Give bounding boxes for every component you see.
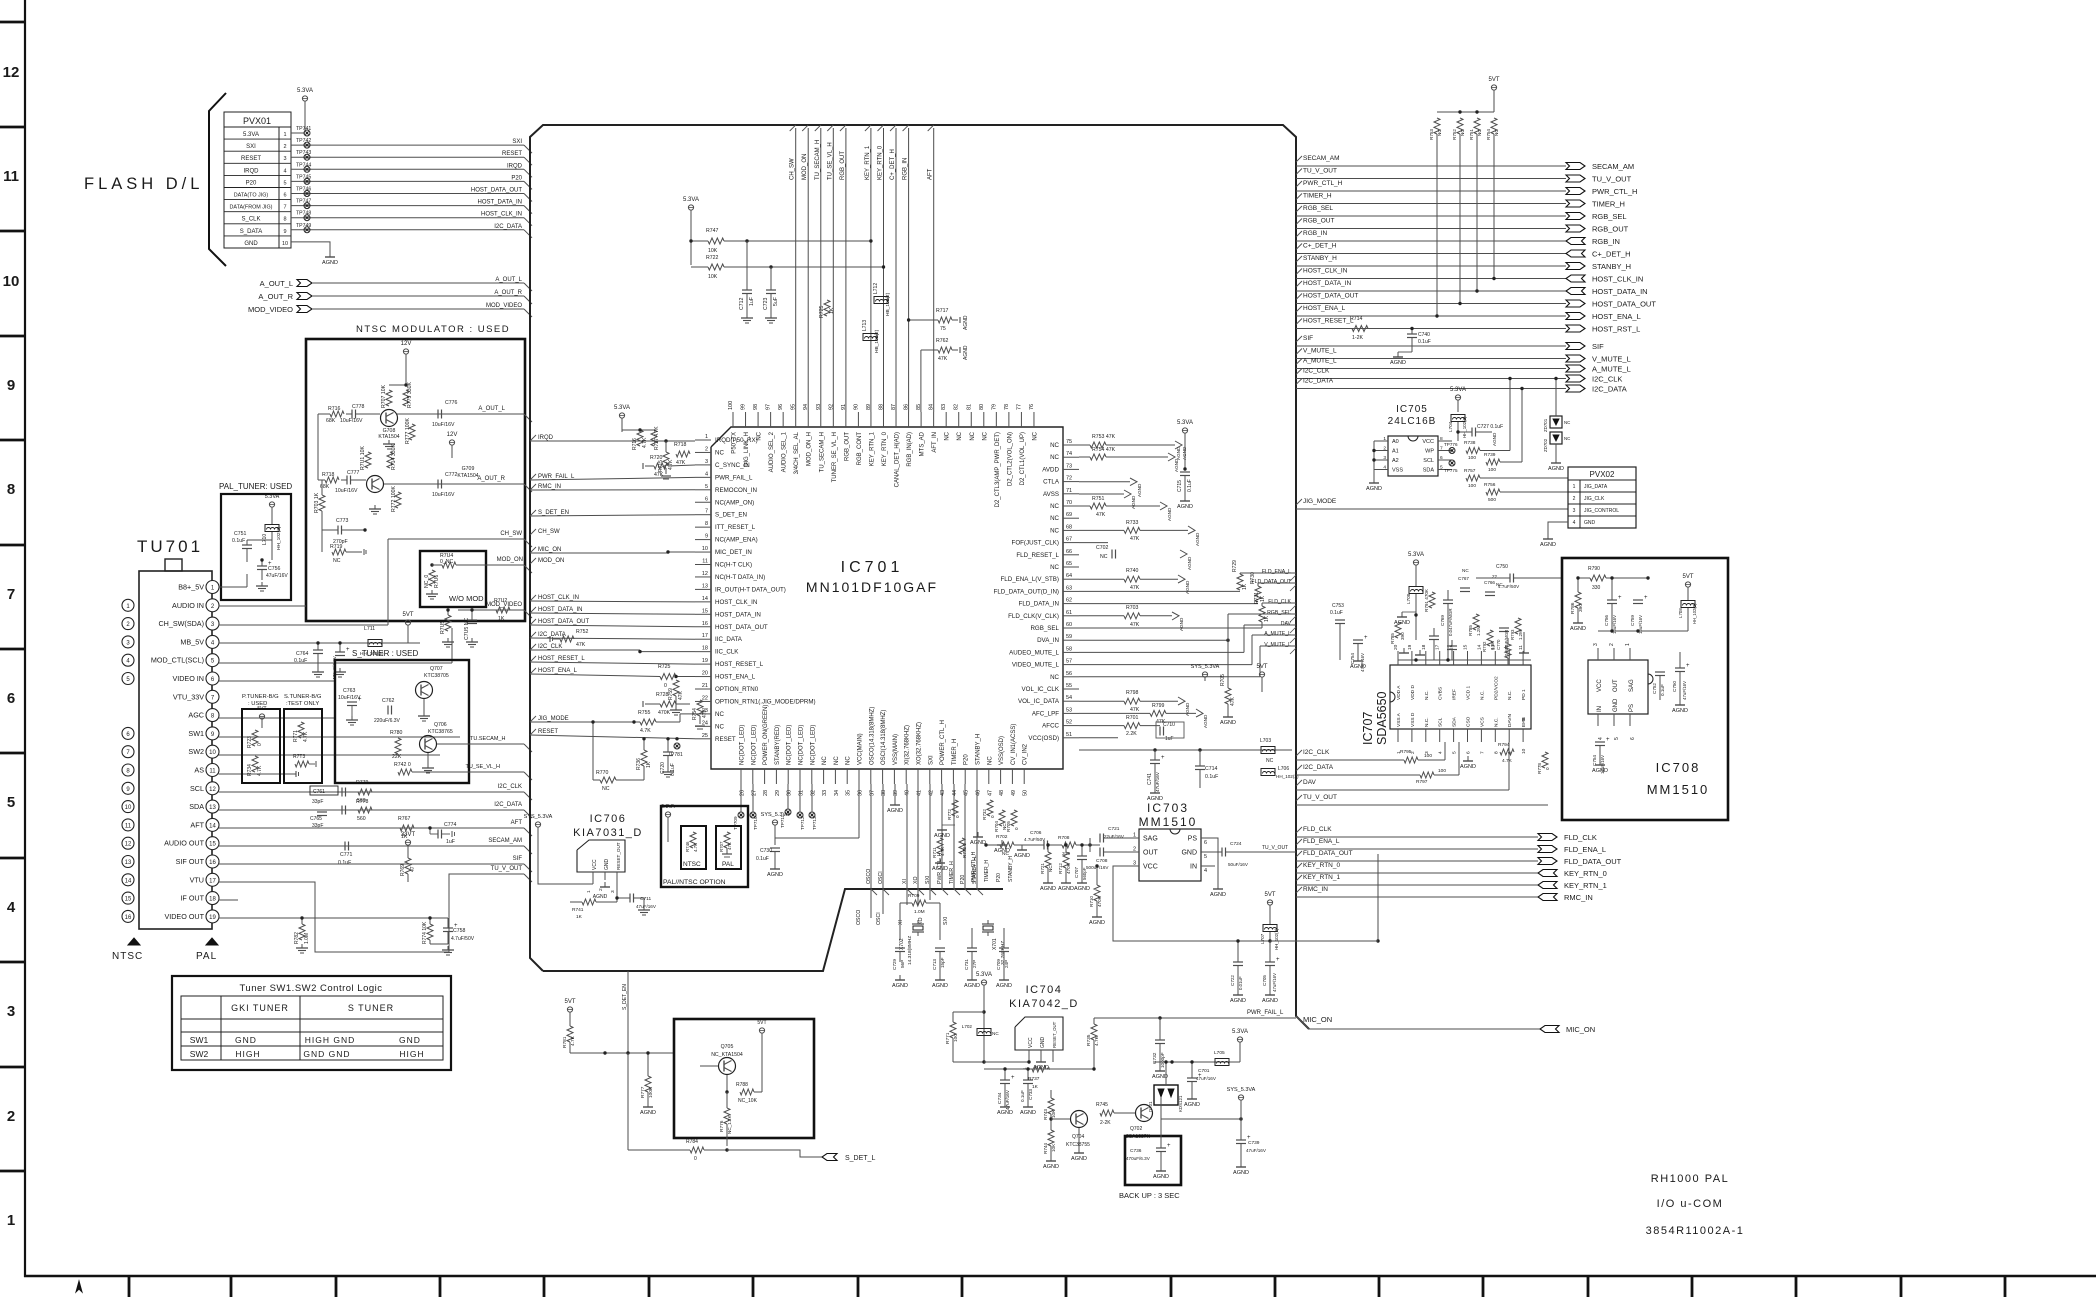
svg-text:41: 41: [917, 790, 923, 796]
capacitor C706 4.7uF/50V: [1043, 841, 1045, 850]
svg-text:0: 0: [1545, 767, 1550, 770]
svg-text:22K: 22K: [392, 754, 402, 760]
wire R771 loop: [953, 1011, 984, 1013]
ground for PVX02 pin4: [1548, 522, 1568, 534]
capacitor C729 56pF: [895, 947, 905, 949]
svg-text:5uF: 5uF: [773, 297, 779, 306]
svg-text:TU_V_OUT: TU_V_OUT: [1262, 845, 1288, 851]
ground IC704 pin2: [1040, 1057, 1042, 1062]
svg-text:I/O u-COM: I/O u-COM: [1657, 1198, 1724, 1210]
svg-text:100K: 100K: [648, 1086, 654, 1098]
svg-text:55: 55: [1066, 683, 1072, 689]
svg-text:24LC16B: 24LC16B: [1388, 416, 1437, 427]
svg-text:56: 56: [1066, 671, 1072, 677]
svg-text:6: 6: [705, 496, 708, 502]
svg-text:NC(DOT_LED): NC(DOT_LED): [751, 725, 757, 765]
svg-text:CH_SW(SDA): CH_SW(SDA): [158, 619, 204, 628]
svg-text:CH_SW: CH_SW: [538, 529, 560, 535]
R754 termination: [1168, 453, 1175, 461]
svg-text:VCC: VCC: [1597, 679, 1603, 692]
svg-text:NC: NC: [970, 431, 976, 440]
svg-text:C761: C761: [313, 789, 325, 795]
svg-text:A_OUT_R: A_OUT_R: [477, 476, 505, 482]
svg-text:AGND: AGND: [1220, 720, 1236, 726]
svg-text:FLD_DATA_IN: FLD_DATA_IN: [1019, 601, 1059, 608]
svg-text:L707: L707: [1260, 933, 1265, 944]
ground in modulator: [388, 440, 390, 444]
svg-text:560: 560: [357, 816, 366, 822]
svg-text:1uF: 1uF: [1165, 736, 1174, 742]
IC703 body: [1139, 829, 1201, 881]
svg-text:MOD_CTL(SCL): MOD_CTL(SCL): [151, 656, 204, 665]
PAL marker below tuner: [206, 938, 218, 945]
svg-text:N.C.: N.C.: [1507, 690, 1513, 700]
svg-text:FLD_DATA_OUT: FLD_DATA_OUT: [1251, 579, 1291, 585]
IC703 left pin 2 OUT: [1125, 851, 1139, 853]
svg-text:47K: 47K: [1130, 585, 1140, 591]
svg-text:AGND: AGND: [1592, 768, 1608, 774]
svg-text:47uF/16V: 47uF/16V: [1155, 771, 1160, 792]
svg-text:47K: 47K: [1230, 696, 1236, 706]
svg-text:NC: NC: [1050, 454, 1059, 461]
wire JIG_MODE right: [1296, 508, 1568, 510]
svg-text:OPTION_RTN0: OPTION_RTN0: [715, 686, 759, 693]
crystal X702 14.318MHZ: [912, 923, 924, 925]
svg-text:A_MUTE_L: A_MUTE_L: [1264, 631, 1291, 637]
svg-text:7: 7: [7, 586, 15, 603]
svg-text:5.3VA: 5.3VA: [1450, 387, 1466, 393]
svg-text:4.7K: 4.7K: [570, 1035, 576, 1046]
svg-text:5: 5: [1452, 751, 1458, 754]
svg-text:XI: XI: [902, 879, 908, 884]
svg-text:NC(H-T CLK): NC(H-T CLK): [715, 562, 752, 569]
wire IC707 top rail 2: [1398, 659, 1531, 661]
svg-text:NC(DOT_LED): NC(DOT_LED): [810, 725, 816, 765]
svg-text:VDD A: VDD A: [1396, 685, 1402, 700]
svg-text:A_OUT_R: A_OUT_R: [494, 290, 522, 296]
svg-text:HOST_DATA_IN: HOST_DATA_IN: [538, 607, 582, 613]
ground under Q709: [374, 505, 376, 509]
svg-text:HOST_CLK_IN: HOST_CLK_IN: [715, 599, 757, 606]
svg-text:HOST_CLK_IN: HOST_CLK_IN: [1303, 268, 1348, 275]
svg-text:0_NC: 0_NC: [440, 559, 454, 565]
svg-text:C750: C750: [1672, 681, 1677, 692]
IC707 top pin 17: [1439, 651, 1441, 665]
svg-text:PAL_TUNER: USED: PAL_TUNER: USED: [219, 482, 292, 491]
testpoint TP775: [1449, 460, 1455, 466]
svg-text:20: 20: [1393, 644, 1399, 650]
svg-text:HOST_CLK_IN: HOST_CLK_IN: [481, 212, 522, 218]
svg-text:HOST_DATA_OUT: HOST_DATA_OUT: [1592, 300, 1656, 309]
svg-text:P50_TX: P50_TX: [732, 432, 738, 454]
resistor R772z 0: [952, 800, 958, 816]
capacitor C709 24pF: [999, 947, 1009, 949]
svg-text:82: 82: [954, 404, 960, 410]
svg-text:2: 2: [598, 888, 604, 891]
svg-text:AGND: AGND: [964, 983, 980, 989]
svg-text:C730: C730: [760, 848, 772, 854]
svg-text:A0: A0: [1392, 439, 1399, 445]
svg-text:HH_102(2): HH_102(2): [1276, 774, 1299, 779]
svg-text:R721: R721: [1040, 863, 1045, 874]
svg-text:18: 18: [702, 646, 708, 652]
IC701 MN101DF10GAF body: [711, 427, 1063, 769]
svg-text:VOL_IC_CLK: VOL_IC_CLK: [1022, 686, 1060, 693]
wire pullup rail 2: [691, 266, 708, 268]
svg-text:470uF/6.3V: 470uF/6.3V: [1126, 1156, 1151, 1161]
svg-text:2: 2: [1133, 847, 1136, 853]
svg-text:MOD_VIDEO: MOD_VIDEO: [248, 305, 293, 314]
svg-text:47K: 47K: [1096, 512, 1106, 518]
svg-text:JIG_MODE: JIG_MODE: [1303, 498, 1337, 505]
right signal HOST_DATA_IN: [1296, 281, 1302, 287]
svg-text:TP713: TP713: [812, 816, 817, 830]
svg-text:11: 11: [702, 559, 708, 565]
svg-text:A_OUT_L: A_OUT_L: [260, 279, 293, 288]
ground IC706 pin2: [604, 882, 606, 887]
svg-text:VTU: VTU: [190, 875, 204, 884]
right signal A_MUTE_L: [1296, 359, 1302, 365]
svg-text:AGND: AGND: [887, 808, 903, 814]
resistor R703 1K: [319, 495, 325, 511]
connector PVX01 table: [224, 112, 291, 248]
svg-text:KIA7031_D: KIA7031_D: [573, 827, 643, 839]
svg-text:R707: R707: [719, 841, 724, 852]
svg-text:PAL//NTSC OPTION: PAL//NTSC OPTION: [663, 879, 726, 886]
svg-text:5.3VA: 5.3VA: [265, 494, 280, 500]
IC701 left pins 1-25: [695, 439, 711, 441]
svg-text:C723: C723: [763, 297, 769, 310]
svg-text:VCD 1: VCD 1: [1466, 686, 1472, 700]
svg-text:RESET: RESET: [241, 156, 261, 162]
capacitor C723 5uF: [766, 289, 776, 291]
svg-text:PD 1: PD 1: [1521, 689, 1527, 700]
crystal X701 32.768KHZ: [982, 923, 994, 925]
IC707 bottom pin 7: [1480, 729, 1482, 742]
svg-text:C707: C707: [1074, 867, 1079, 878]
resistor R735 4.7K: [1091, 1024, 1097, 1040]
wire FLD_DATA_OUT pin63: [1079, 603, 1258, 605]
svg-text:C764: C764: [296, 651, 309, 657]
svg-text:68: 68: [1066, 524, 1072, 530]
wire RESET from PVX01 pin 3: [304, 154, 310, 160]
svg-text:SIF OUT: SIF OUT: [176, 857, 205, 866]
svg-text:R791 470K: R791 470K: [1424, 588, 1429, 612]
resistor R752 47K: [560, 636, 574, 642]
svg-text:0.1uF: 0.1uF: [756, 856, 769, 862]
svg-text:FLD_CLK: FLD_CLK: [1303, 826, 1332, 833]
svg-text:NC(H-T DATA_IN): NC(H-T DATA_IN): [715, 574, 765, 581]
svg-text:SECAM_AM: SECAM_AM: [1303, 155, 1339, 162]
svg-text:L704: L704: [1448, 421, 1453, 432]
svg-text:SECAM_AM: SECAM_AM: [488, 838, 522, 844]
svg-text:KEY_RTN_1: KEY_RTN_1: [865, 145, 871, 180]
svg-text:+: +: [1364, 635, 1368, 641]
svg-text:IC705: IC705: [1396, 404, 1428, 415]
svg-text:IN: IN: [1597, 706, 1603, 712]
tuner pin 7 VTU_33V: [206, 690, 219, 703]
svg-text:NC(DOT_LED): NC(DOT_LED): [740, 725, 746, 765]
resistor R716 68K: [330, 411, 344, 417]
svg-text:Q706: Q706: [434, 722, 447, 728]
svg-text:48: 48: [999, 790, 1005, 796]
svg-text:SDA: SDA: [1452, 716, 1458, 727]
tuner pin 12 SCL: [206, 782, 219, 795]
svg-text:TU_V_OUT: TU_V_OUT: [1303, 794, 1337, 801]
svg-text:17: 17: [1435, 644, 1441, 650]
capacitor C778 10uF/16V: [351, 410, 353, 419]
inductor L704 HH_102(2): [1451, 415, 1465, 422]
IC707 bottom pin 1: [1397, 729, 1399, 742]
ground AGND below PVX01: [329, 252, 331, 257]
svg-text:C774: C774: [444, 822, 457, 828]
svg-text:R717: R717: [936, 308, 949, 314]
inductor L705: [1215, 1059, 1229, 1066]
wire HOST_DATA_IN to pin15: [530, 613, 695, 614]
svg-text:TP775: TP775: [1444, 468, 1458, 473]
zener diode ZD701: [1550, 416, 1562, 428]
svg-text:KTC38755: KTC38755: [1066, 1142, 1090, 1148]
svg-text:C765: C765: [310, 816, 322, 822]
wire HOST_DATA_IN from PVX01 pin 7: [304, 203, 310, 209]
resistor R733 47K: [1124, 527, 1140, 533]
svg-text:IC708: IC708: [1656, 760, 1701, 775]
svg-text:I2C_CLK: I2C_CLK: [1303, 749, 1330, 756]
tuner pin18 IF OUT stub: [219, 899, 239, 901]
capacitor C767 NC: [1460, 587, 1470, 589]
svg-text:5.3VA: 5.3VA: [243, 132, 259, 138]
svg-text:500: 500: [1488, 497, 1496, 503]
svg-text:R781: R781: [562, 1036, 568, 1048]
svg-text:I2C_CLK: I2C_CLK: [1592, 375, 1622, 384]
svg-text:Tuner SW1.SW2 Control Logic: Tuner SW1.SW2 Control Logic: [239, 983, 382, 994]
vertical bus line TU_SECAM_H: [820, 128, 822, 412]
svg-text:NC_10K: NC_10K: [738, 1098, 758, 1104]
resistor R771b 100: [950, 1022, 956, 1038]
svg-text:3: 3: [283, 156, 286, 162]
svg-text:0.1uF: 0.1uF: [1418, 339, 1431, 345]
BACK UP block box: [1125, 1136, 1181, 1185]
capacitor C705 47uF/16V: [1265, 961, 1275, 963]
svg-text:47K: 47K: [1130, 707, 1140, 713]
svg-text:P20: P20: [246, 180, 257, 186]
svg-text:N.C.: N.C.: [1479, 690, 1485, 700]
capacitor C721 22uF/16V: [1099, 834, 1101, 843]
svg-text:NC: NC: [822, 756, 828, 765]
svg-text:RMC_IN: RMC_IN: [538, 484, 561, 490]
svg-text:OSCO: OSCO: [866, 869, 872, 884]
svg-text:FLD_CLK(V_CLK): FLD_CLK(V_CLK): [1008, 613, 1059, 620]
svg-text:SYS_5.3VA: SYS_5.3VA: [524, 814, 553, 820]
svg-text:R786: R786: [1570, 602, 1576, 614]
testpoint TP711: [785, 809, 791, 815]
svg-text:R737: R737: [1028, 1076, 1040, 1082]
svg-text:D701: D701: [1148, 1101, 1153, 1112]
control logic table outer box: [172, 976, 451, 1070]
svg-text:2-2K: 2-2K: [1100, 1120, 1111, 1126]
svg-text:R790: R790: [1588, 566, 1600, 572]
IC707 body: [1390, 665, 1531, 729]
svg-text:S_DET_L: S_DET_L: [845, 1155, 875, 1162]
svg-text:IC704: IC704: [1026, 984, 1063, 996]
left edge signal IRQD: [530, 435, 536, 441]
svg-text:R798: R798: [1126, 690, 1139, 696]
wire tuner pin1 to PAL tuner box: [219, 586, 248, 588]
svg-text:R785: R785: [1390, 633, 1395, 644]
svg-text:R729: R729: [1232, 560, 1238, 572]
sheet border left vertical line: [24, 0, 26, 1277]
resistor R703b 47K: [1124, 613, 1140, 619]
svg-text:3: 3: [1573, 508, 1576, 514]
resistor R708 330: [1062, 842, 1076, 848]
svg-text:NC: NC: [1477, 129, 1482, 136]
svg-text:R754: R754: [1486, 129, 1491, 140]
svg-text:R774 10K: R774 10K: [422, 921, 428, 944]
resistor R738 100: [1466, 448, 1480, 454]
resistor R740 47K: [1124, 576, 1140, 582]
svg-text:A_OUT_R: A_OUT_R: [258, 292, 293, 301]
svg-text:4.7K: 4.7K: [668, 459, 674, 470]
svg-text:AGND: AGND: [1040, 886, 1056, 892]
svg-text:SW2: SW2: [190, 1049, 209, 1059]
svg-text:GND GND: GND GND: [303, 1049, 350, 1059]
svg-text:0: 0: [257, 743, 263, 746]
svg-text:38: 38: [881, 790, 887, 796]
svg-text:FLD_ENA_L: FLD_ENA_L: [1303, 838, 1340, 845]
svg-text:C713: C713: [932, 959, 937, 970]
svg-text:XI: XI: [898, 920, 904, 925]
ground for R717: [959, 317, 961, 323]
resistor R753 47K: [1090, 442, 1106, 448]
svg-text:NC: NC: [1564, 420, 1570, 425]
svg-text:13: 13: [209, 805, 216, 811]
svg-text:47K: 47K: [938, 356, 948, 362]
svg-text:77: 77: [1016, 404, 1022, 410]
svg-text:R793: R793: [1510, 629, 1515, 640]
right signal HOST_RST_L: [1296, 319, 1302, 325]
IC703 right pin 4 IN: [1201, 865, 1215, 867]
svg-text:52: 52: [1066, 720, 1072, 726]
resistor R767 1K: [400, 825, 414, 831]
svg-text:R707 10K: R707 10K: [381, 384, 387, 408]
svg-text:SIF: SIF: [1303, 335, 1313, 342]
svg-text:PWR_FAIL_L: PWR_FAIL_L: [715, 474, 753, 481]
capacitor C727 0.1uF: [1471, 428, 1473, 437]
svg-text:ZD701: ZD701: [1543, 418, 1548, 432]
svg-text:73: 73: [1066, 463, 1072, 469]
svg-text:5.3VA: 5.3VA: [297, 88, 313, 94]
resistor R7T3 0: [295, 761, 309, 767]
wire A_OUT_L out of modulator: [397, 413, 524, 415]
svg-text:12V: 12V: [401, 341, 412, 347]
svg-text:HIGH: HIGH: [399, 1049, 424, 1059]
svg-text:ZD702: ZD702: [1543, 438, 1548, 452]
svg-text:RH1000 PAL: RH1000 PAL: [1651, 1173, 1729, 1185]
wire tuner pin9 SW1: [219, 736, 461, 738]
svg-text:68K: 68K: [320, 484, 330, 490]
svg-text:8: 8: [283, 217, 286, 223]
svg-text:OSCO(14.318(8MHZ): OSCO(14.318(8MHZ): [869, 707, 875, 765]
resistor R753t NC: [1434, 118, 1440, 134]
wire IC708 mid rail: [1598, 630, 1688, 632]
NTSC marker below tuner: [128, 938, 140, 945]
svg-text:22: 22: [702, 695, 708, 701]
svg-text:R725: R725: [819, 305, 825, 318]
svg-text:11: 11: [3, 168, 19, 185]
S tuner block box: [335, 660, 469, 783]
svg-text:D2_CTL2(VOL_ON): D2_CTL2(VOL_ON): [1007, 432, 1013, 486]
wire HOST_DATA_OUT to pin16: [530, 625, 695, 627]
pullup vertical to HOST_CLK_IN: [1493, 134, 1495, 279]
vertical bus line TU_SE_VL_H: [832, 128, 834, 412]
svg-text:SIF: SIF: [513, 856, 523, 862]
right signal SIF: [1296, 336, 1302, 342]
resistor R793 1.2M: [1515, 618, 1521, 634]
IC707 top pin 20: [1397, 651, 1399, 665]
svg-text:27: 27: [751, 790, 757, 796]
svg-text:9: 9: [283, 229, 286, 235]
tuner pin 1 B8+_5V: [206, 581, 219, 594]
svg-text:47uF/16V: 47uF/16V: [636, 904, 657, 909]
left edge signal HOST_CLK_IN: [530, 595, 536, 601]
capacitor C711 47uF/16V: [629, 894, 631, 903]
svg-text:12V: 12V: [447, 432, 458, 438]
svg-text:AGND: AGND: [1043, 1164, 1059, 1170]
svg-text:47uF/16V: 47uF/16V: [1272, 973, 1277, 992]
svg-text:NC: NC: [1050, 503, 1059, 510]
wire DAV lower: [1296, 789, 1509, 791]
IC707 top pin 18: [1425, 651, 1427, 665]
svg-text:NC: NC: [715, 711, 724, 718]
svg-text:C753: C753: [1332, 603, 1344, 609]
svg-text:4: 4: [1383, 465, 1386, 471]
svg-text:R753 47K: R753 47K: [1092, 434, 1116, 440]
svg-text:D2_CTL1(VOL_UP): D2_CTL1(VOL_UP): [1020, 432, 1026, 485]
svg-text:TU_V_OUT: TU_V_OUT: [1592, 175, 1632, 184]
svg-text:1uF: 1uF: [446, 839, 455, 845]
svg-text:1.0M: 1.0M: [304, 933, 310, 944]
svg-text:0.1uF: 0.1uF: [1205, 774, 1218, 780]
wire tuner pin10 SW2: [219, 754, 441, 756]
svg-text:VSS(OSD): VSS(OSD): [999, 736, 1005, 765]
transistor Q706 KTC38765: [420, 736, 437, 753]
svg-text:V_MUTE_L: V_MUTE_L: [1303, 348, 1337, 355]
svg-text:98: 98: [753, 404, 759, 410]
svg-text:2: 2: [1573, 496, 1576, 502]
svg-text:V_MUTE_L: V_MUTE_L: [1264, 642, 1291, 648]
svg-text:S_DATA: S_DATA: [240, 229, 262, 235]
svg-text:78: 78: [1004, 404, 1010, 410]
svg-text:C701: C701: [1198, 1068, 1210, 1074]
svg-text:SW1: SW1: [188, 729, 204, 738]
svg-text:HH_102(2): HH_102(2): [1692, 603, 1697, 624]
svg-text:R752: R752: [576, 629, 589, 635]
wire JIG_MODE: [530, 721, 640, 723]
svg-text:AGND: AGND: [640, 1110, 656, 1116]
svg-text:C752: C752: [1652, 683, 1657, 694]
IC701 right pins 51-75: [1063, 444, 1079, 446]
IC707 top pin 11: [1522, 651, 1524, 665]
svg-text:60: 60: [1066, 622, 1072, 628]
svg-text:1: 1: [1383, 436, 1386, 442]
svg-text:HOST_CLK_IN: HOST_CLK_IN: [1592, 275, 1643, 284]
svg-text:R740: R740: [1126, 568, 1139, 574]
svg-text:HOST_DATA_OUT: HOST_DATA_OUT: [538, 619, 589, 625]
svg-text:47K: 47K: [1130, 622, 1140, 628]
svg-text:R710: R710: [1089, 896, 1094, 907]
svg-text:C763: C763: [343, 688, 356, 694]
svg-text:TIMER_H: TIMER_H: [952, 739, 958, 765]
